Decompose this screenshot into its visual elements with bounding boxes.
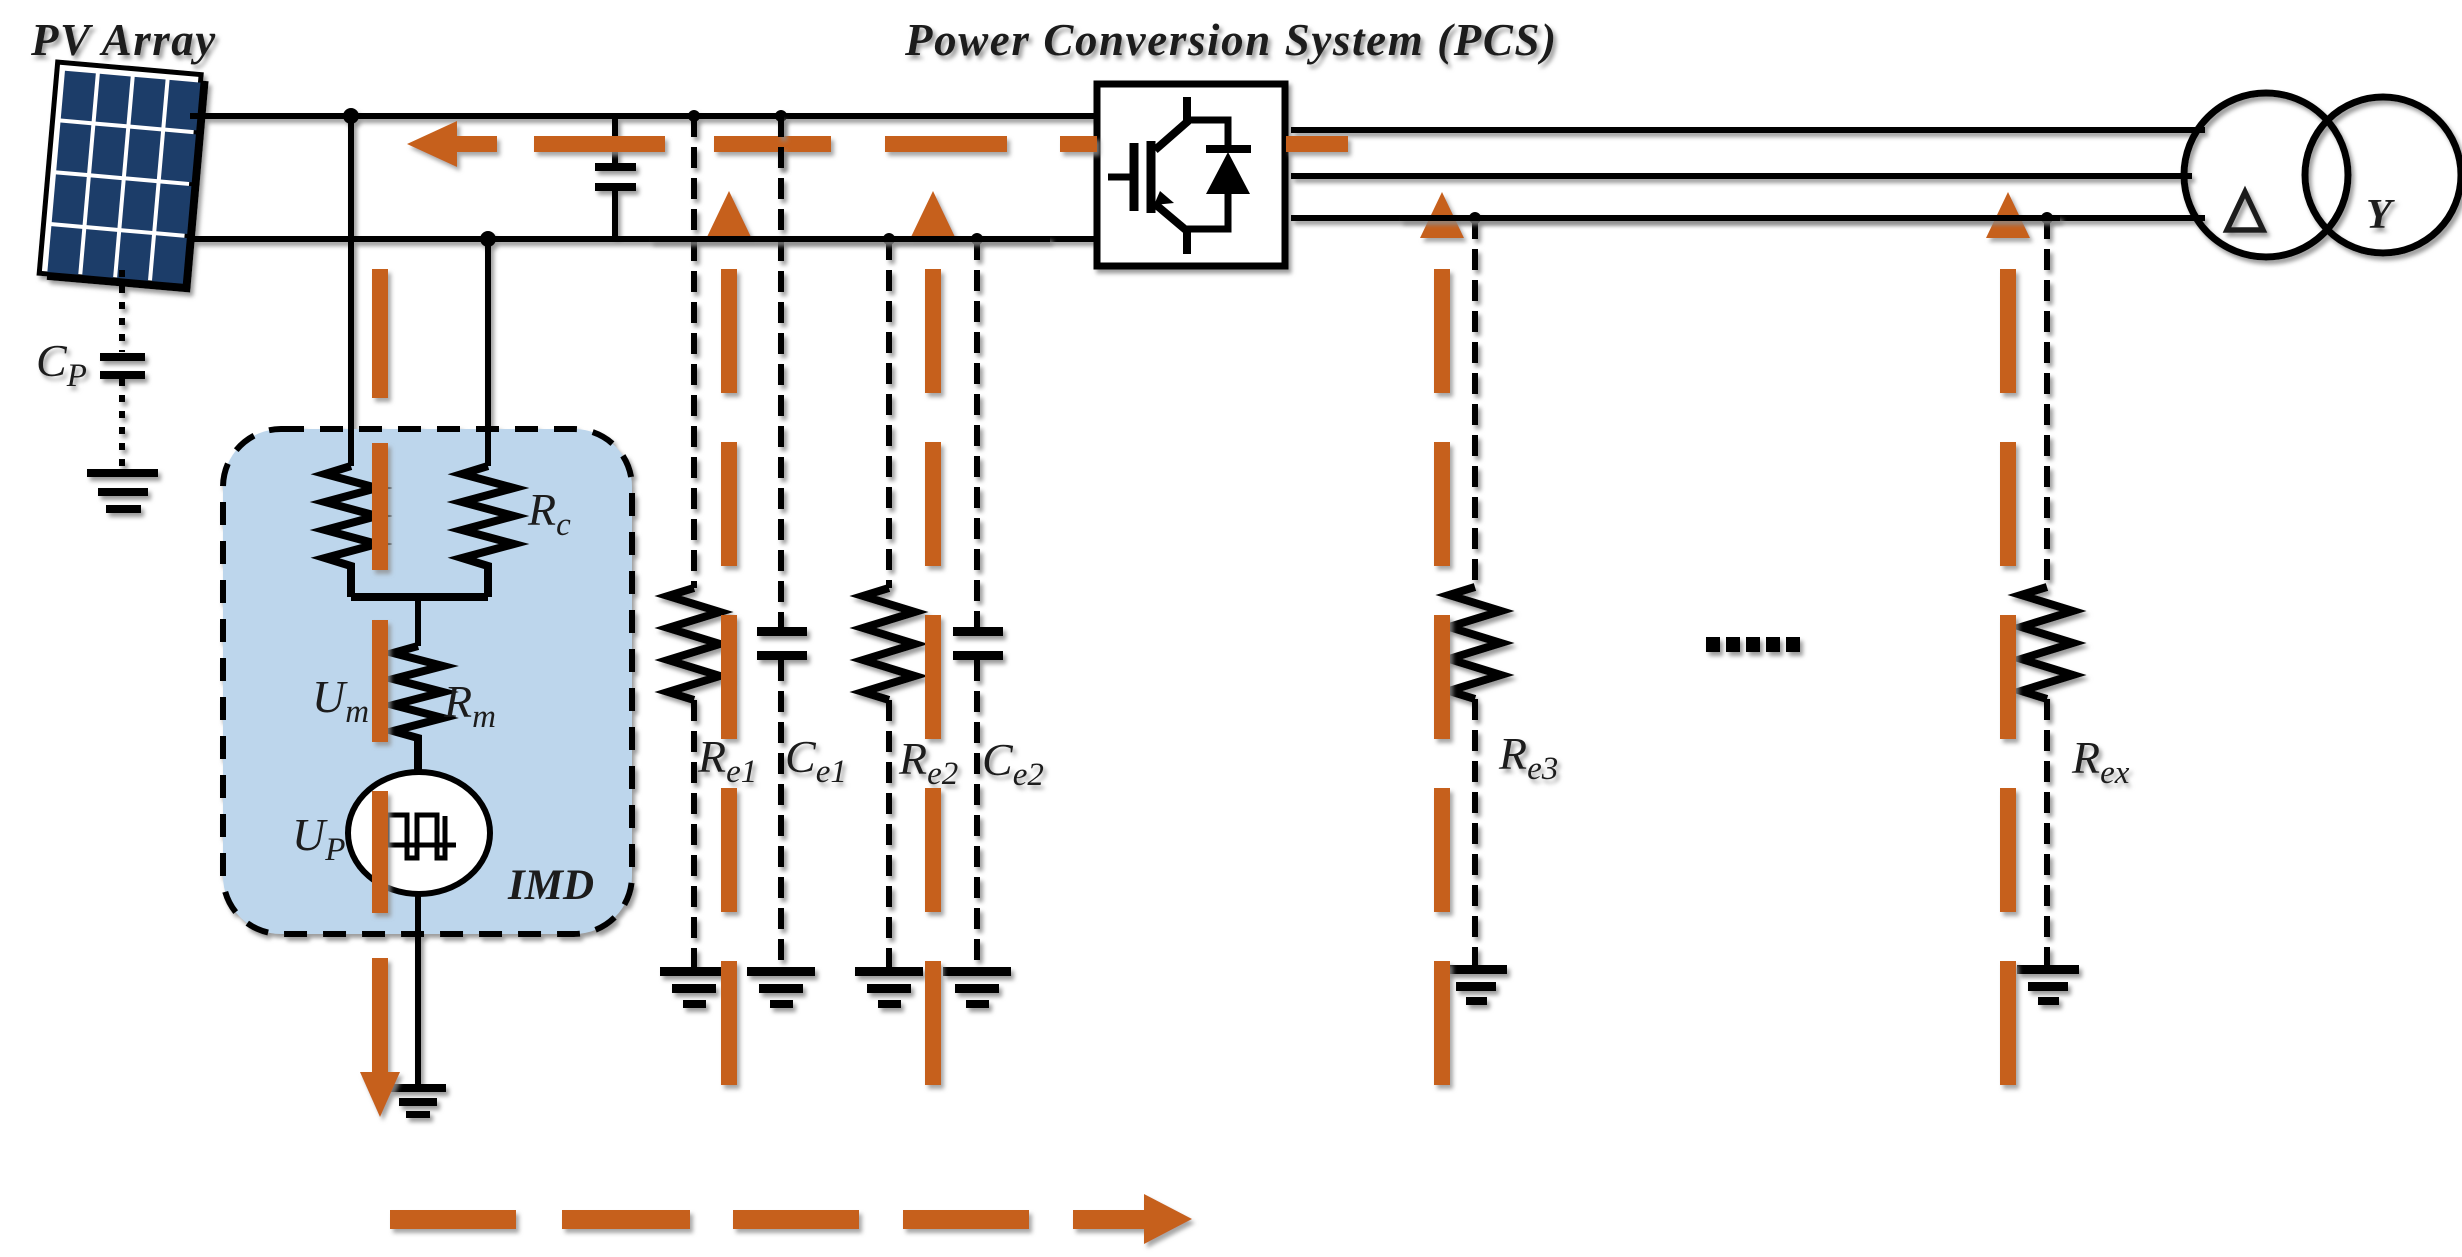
ellipsis dots — [1706, 637, 1800, 652]
node Rex — [2041, 212, 2053, 224]
wire: top DC bus — [190, 113, 1100, 119]
svg-text:IMD: IMD — [507, 862, 594, 909]
svg-text:Re1: Re1 — [697, 731, 757, 790]
wire overlay: AC bottom across arrows — [1400, 215, 2060, 221]
ground Re1 — [660, 967, 728, 1008]
dashed branch Ce1 — [778, 116, 784, 627]
capacitor Ce1 — [757, 627, 807, 636]
orange bottom arrow — [390, 1194, 1192, 1244]
wire: AC phase bottom — [1291, 215, 2205, 221]
svg-text:Ce1: Ce1 — [785, 731, 847, 790]
ground Re2 — [855, 967, 923, 1008]
resistor Re2 — [863, 588, 915, 700]
resistor left in IMD — [325, 466, 377, 597]
wire: bracket to Rm — [415, 599, 421, 646]
dashed branch Re1 — [691, 116, 697, 588]
PV array panel — [39, 62, 209, 292]
wire: bracket joining the two resistors — [351, 593, 488, 601]
orange leftward arrow on top bus — [407, 121, 497, 167]
capacitor Ce2 — [953, 627, 1003, 636]
resistor Rm — [393, 646, 443, 772]
orange up arrow at Re3 — [1420, 192, 1464, 1085]
dashed branch Re2 — [886, 239, 892, 588]
dashed branch Ce2 — [974, 239, 980, 627]
capacitor DC-link — [595, 116, 636, 239]
svg-text:Re3: Re3 — [1498, 728, 1558, 787]
svg-text:Re2: Re2 — [898, 733, 958, 792]
wire: drop from top bus to IMD left resistor — [348, 116, 354, 466]
IGBT inside PCS — [1108, 97, 1251, 254]
node on top bus — [343, 108, 359, 124]
wire: AC phase top — [1291, 127, 2205, 133]
svg-text:Y: Y — [2366, 192, 2395, 238]
voltage source Up circle — [348, 772, 490, 894]
IMD block background — [223, 429, 632, 934]
resistor Re1 — [668, 588, 720, 700]
node Ce2 — [971, 233, 983, 245]
transformer — [2184, 93, 2348, 257]
orange dashed drop at IMD — [360, 269, 400, 1117]
node on bottom bus — [480, 231, 496, 247]
ground Rex — [2017, 965, 2079, 1005]
ground under IMD — [390, 1084, 446, 1118]
node Re1 — [688, 110, 700, 122]
ground under Cp — [87, 469, 158, 513]
resistor Rc — [462, 466, 514, 597]
pulse waveform inside Up — [380, 815, 456, 858]
ground Re3 — [1445, 965, 1507, 1005]
svg-text:CP: CP — [36, 335, 87, 394]
ORANGE LAYER — [360, 121, 2030, 1244]
wire overlay: bottom DC bus across arrows — [650, 236, 1050, 242]
dashed branch Re3 — [1472, 218, 1478, 587]
ground Ce1 — [747, 967, 815, 1008]
resistor Re3 — [1449, 587, 1501, 699]
dashed branch Rex — [2044, 218, 2050, 587]
orange up arrow at Rex — [1986, 192, 2030, 1085]
svg-text:Rex: Rex — [2071, 732, 2130, 791]
orange up arrow at Re1/Ce1 — [707, 191, 751, 1085]
BLACK OVER ORANGE — [650, 116, 2060, 239]
capacitor Cp dotted lead — [119, 270, 125, 352]
node Ce1 — [775, 110, 787, 122]
wire: drop from bottom bus to IMD right resistor — [485, 239, 491, 466]
svg-text:Ce2: Ce2 — [982, 734, 1044, 793]
label delta — [2227, 192, 2263, 230]
capacitor Cp — [100, 353, 145, 361]
wire: bottom DC bus — [192, 236, 1100, 242]
orange dash top run — [534, 136, 665, 152]
PCS box — [1097, 84, 1285, 266]
wire overlay: dashed Ce1 across orange run — [778, 116, 784, 170]
node Re2 — [883, 233, 895, 245]
wire: Up to ground — [415, 894, 421, 1086]
orange up arrow at Re2/Ce2 — [911, 191, 955, 1085]
ground Ce2 — [943, 967, 1011, 1008]
node Re3 — [1469, 212, 1481, 224]
svg-text:PV Array: PV Array — [30, 15, 217, 65]
wire: AC phase middle — [1291, 173, 2192, 179]
svg-text:Power Conversion System (PCS): Power Conversion System (PCS) — [904, 15, 1558, 65]
resistor Rex — [2021, 587, 2073, 699]
